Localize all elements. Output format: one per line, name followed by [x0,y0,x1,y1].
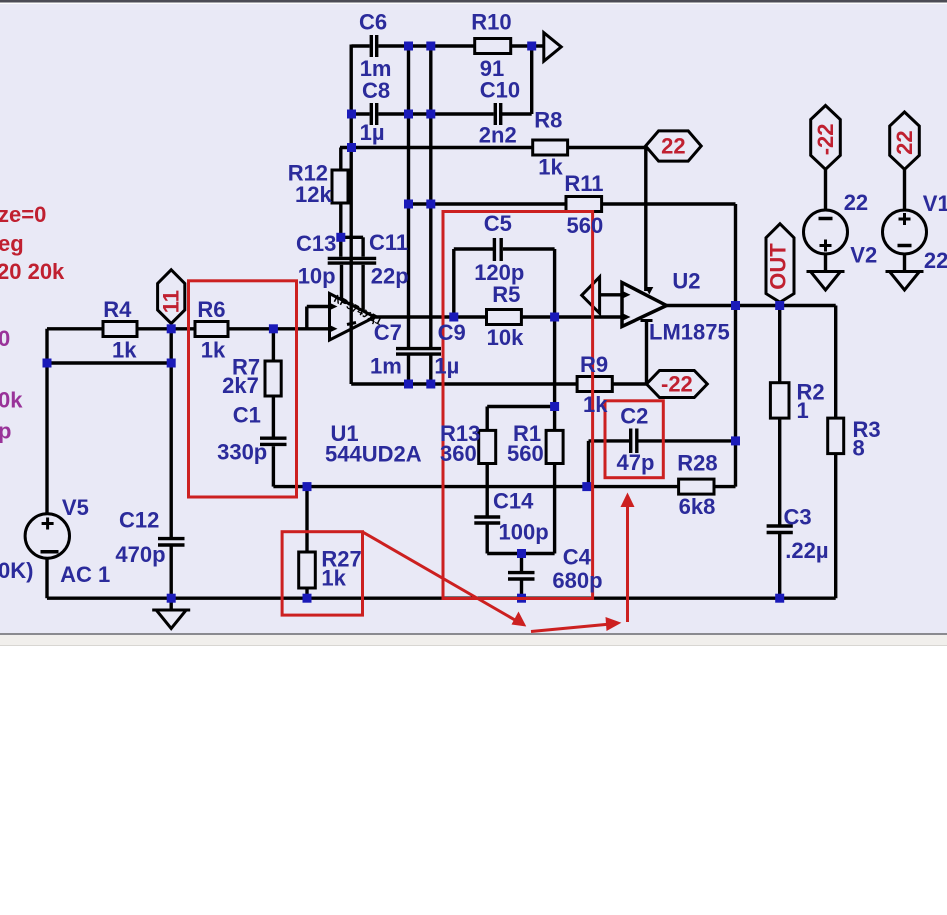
wire c3-bottom-lead [778,534,781,598]
ground V1 [886,272,924,291]
wire r28-right-lead [714,485,736,488]
svg-text:12k: 12k [295,182,332,207]
node J8 [404,200,413,209]
svg-text:C9: C9 [438,320,466,345]
wire left-supply-vert [350,45,353,385]
svg-text:C3: C3 [784,505,812,530]
node J10 [336,233,345,242]
svg-text:100p: 100p [499,520,549,545]
node J17 [167,324,176,333]
resistor R9 [577,377,612,392]
svg-text:R5: R5 [492,282,520,307]
wire v5-top-lead [45,329,48,514]
wire r3-bottom-lead [834,454,837,599]
wire c8-row-b [378,112,493,115]
wire r27-bottom-lead [305,588,308,598]
svg-text:V5: V5 [62,495,89,520]
resistor R13 [479,430,496,463]
cropped left text column [0,202,65,583]
resistor R8 [533,140,568,155]
wire c5-right-lead [503,247,555,250]
wire c14-r1-jog [487,552,554,555]
svg-text:C10: C10 [480,78,520,103]
svg-text:C11: C11 [369,230,408,255]
capacitor C13 [328,258,352,263]
node J7 [347,143,356,152]
node J15 [550,402,559,411]
wire r11-row-right [602,202,736,205]
svg-text:C6: C6 [359,10,387,35]
svg-text:V2: V2 [850,243,877,268]
wire vert-430-lower [429,355,432,384]
wire u2-upper-input [600,293,623,296]
capacitor C4 [508,573,535,579]
wire c5-left-lead [454,247,493,250]
node J12 [550,313,559,322]
svg-text:1k: 1k [112,338,137,363]
red highlight box (C2) [605,401,663,478]
node J24 [775,301,784,310]
wire vert-408-lower [407,355,410,384]
wire top-rail-b [378,44,474,47]
capacitor C12 [158,539,185,545]
wire u1-out-row [375,315,623,318]
svg-text:22p: 22p [371,264,409,289]
node J25 [731,436,740,445]
svg-text:R10: R10 [471,10,511,35]
svg-text:C8: C8 [362,78,390,103]
svg-text:V1: V1 [923,191,947,216]
svg-text:0: 0 [0,326,10,351]
wire r11-feedback-vert [734,204,737,306]
resistor R12 [332,170,348,203]
wire c13-c11-jog [341,236,363,239]
svg-text:AC 1: AC 1 [60,562,110,587]
svg-text:1m: 1m [370,354,402,379]
resistor R27 [299,552,316,588]
node J13 [404,380,413,389]
svg-text:8: 8 [853,435,865,460]
node flag +22 (V1 supply) [890,112,920,169]
node J19 [167,359,176,368]
wire r5-down-vert [553,317,556,407]
capacitor C2 [631,429,637,454]
wire top-rail-a [352,44,370,47]
svg-text:R28: R28 [677,451,717,476]
svg-text:680p: 680p [552,568,602,593]
node J6 [426,110,435,119]
wire v2-flag-stem [824,169,827,211]
svg-text:.22µ: .22µ [785,538,828,563]
wire c12-vert-bottom [169,547,172,599]
wire r7-c1-link [272,396,275,437]
wire c5-left-vert [452,249,455,317]
capacitor C8 [371,103,376,125]
capacitor C3 [767,526,793,533]
svg-text:C12: C12 [119,507,159,532]
wire c13-top-lead [339,237,342,256]
svg-text:C4: C4 [563,545,592,570]
wire r8-row-left [340,146,533,149]
source V2 [804,210,848,254]
wire r3-top-lead [834,306,837,419]
svg-text:47p: 47p [617,450,655,475]
wire v-plus-stem [644,148,647,292]
svg-text:p: p [0,419,11,444]
wire r1-bottom-lead [553,464,556,554]
wire r9-to-flag [612,382,646,385]
svg-text:560: 560 [567,213,604,238]
svg-text:LM1875: LM1875 [649,320,730,345]
wire vert-408-upper [407,46,410,348]
wire u2-out-row [667,304,836,307]
node J20 [303,482,312,491]
svg-text:C2: C2 [620,404,648,429]
svg-text:2k7: 2k7 [222,373,259,398]
node flag +22 (near R8) [646,131,702,161]
op-amp U1 [330,293,384,340]
wire gnd-stem [169,598,172,610]
svg-text:0k: 0k [0,388,23,413]
svg-text:C5: C5 [484,211,512,236]
resistor R11 [566,197,602,212]
capacitor C1 [260,438,287,444]
wire c2-left-down [587,441,590,487]
svg-text:1k: 1k [538,155,563,180]
wire c1-to-node [273,485,307,488]
component value labels [60,10,947,594]
red annotation arrow from R27 box [363,532,527,627]
node J22 [517,549,526,558]
svg-text:C13: C13 [296,231,336,256]
svg-text:R11: R11 [564,171,603,196]
wire r10-right-down [530,45,533,115]
node flag -22 (near U2) [647,371,708,398]
node flag OUT [766,224,795,302]
wire r12-top-lead [339,148,342,171]
wire r1-top-lead [553,407,556,431]
wire u1-input-jog [305,307,308,329]
wire in-row-a [47,327,103,330]
svg-text:2n2: 2n2 [479,123,517,148]
svg-text:1µ: 1µ [434,354,459,379]
resistor R7 [265,361,281,396]
svg-text:OUT: OUT [766,243,791,290]
wire r8-row-right [568,146,646,149]
ground V2 [807,272,845,291]
svg-text:560: 560 [507,441,544,466]
tie marker T1 (right of R10) [544,33,561,62]
svg-text:C7: C7 [374,320,402,345]
wire r7-top-lead [272,329,275,361]
wire c4-bottom-lead [520,581,523,599]
node J26 [167,594,176,603]
svg-text:470p: 470p [115,542,165,567]
wire c4-top-lead [520,554,523,572]
svg-text:10p: 10p [298,264,336,289]
capacitor C10 [495,103,500,125]
red annotation arrow (up, to C2 box) [621,493,635,623]
svg-text:R6: R6 [197,297,225,322]
svg-text:R9: R9 [580,352,608,377]
wire v2-gnd-stem [824,253,827,272]
wire lower-rail [307,485,679,488]
svg-text:360: 360 [440,441,477,466]
red highlight box (R27) [282,532,362,615]
ground main [152,610,190,629]
wire c14-bottom-lead [486,525,489,554]
wire r2-c3-link [778,418,781,524]
wire r11-row-left [409,202,567,205]
wire r12-bottom-lead [339,203,342,237]
svg-text:1: 1 [797,398,809,423]
wire c11-bottom-lead [361,265,364,311]
wire vert-430-upper [429,46,432,348]
wire v-minus-stem [645,321,648,385]
resistor R5 [487,310,522,325]
wire bottom-rail [47,597,836,600]
wire mid-rail-left [351,382,577,385]
node J29 [775,594,784,603]
svg-text:11: 11 [159,290,184,313]
wire c8-row-c [500,112,531,115]
svg-text:R8: R8 [534,108,562,133]
source V1 [883,210,927,254]
svg-text:20 20k: 20 20k [0,259,65,284]
red highlight box (C5 R5 R13 R1 C14 region) [443,212,593,599]
wire c5-right-vert [553,249,556,317]
node J23 [731,301,740,310]
capacitor C14 [474,517,500,523]
svg-text:1µ: 1µ [360,120,385,145]
source V5 [25,514,69,558]
wire c11-top-lead [361,237,364,256]
svg-text:-22: -22 [661,372,693,397]
wire r13-r1-jog [487,405,554,408]
wire v1-flag-stem [903,169,906,211]
svg-text:10k: 10k [487,325,524,350]
capacitor C5 [494,238,501,261]
resistor R4 [103,322,137,337]
svg-text:6k8: 6k8 [679,494,716,519]
svg-text:1k: 1k [583,392,608,417]
svg-text:22: 22 [892,130,917,154]
wire c1-bottom-lead [272,446,275,486]
wire c2-left-lead [589,439,630,442]
wire c2-right-lead [639,439,736,442]
capacitor C9 [419,349,441,355]
wire second-row [47,361,171,364]
wire r13-bottom-lead [486,464,489,516]
node J28 [517,594,526,603]
svg-text:-22: -22 [813,124,838,156]
capacitor C7 [396,349,419,355]
resistor R10 [475,39,511,54]
wire u1-inv-input [307,305,330,308]
wire r27-top-lead [305,487,308,552]
node J3 [527,42,536,51]
red annotation arrow (middle, pointing right) [531,617,621,632]
capacitor C6 [371,35,376,57]
wire c12-vert-top [169,329,172,537]
wire in-row-b [137,327,195,330]
wire r13-top-lead [486,407,489,431]
resistor R6 [195,322,228,337]
wire v5-bottom-lead [45,558,48,598]
node J18 [43,359,52,368]
wire output-feedback-vert [734,306,737,487]
resistor R3 [828,418,844,454]
svg-text:1k: 1k [201,338,226,363]
node J2 [426,42,435,51]
resistor R2 [770,383,789,418]
node J9 [426,200,435,209]
wire v1-gnd-stem [903,253,906,272]
svg-text:330p: 330p [217,440,267,465]
resistor R1 [546,430,563,463]
wire c8-row-a [352,112,370,115]
wire c13-bottom-lead [340,265,343,300]
node J5 [404,110,413,119]
svg-text:C1: C1 [233,403,261,428]
wire in-row-c [228,327,330,330]
wire r2-top-lead [778,306,781,383]
wire top-rail-c [511,44,544,47]
node J11 [449,313,458,322]
node flag 11 (input node) [158,270,185,324]
svg-text:C14: C14 [493,489,534,514]
node J14 [426,380,435,389]
svg-text:0K): 0K) [0,558,33,583]
node J1 [404,42,413,51]
svg-text:544UD2A: 544UD2A [325,442,422,467]
svg-text:22: 22 [844,190,868,215]
node flag -22 (V2 supply) [811,106,841,170]
svg-text:ze=0: ze=0 [0,202,46,227]
tie marker T2 (left of U2) [582,277,600,313]
red highlight box (R6 R7 C1) [189,281,297,497]
node J21 [582,482,591,491]
op-amp U2 [622,283,667,327]
node J4 [347,110,356,119]
svg-text:U2: U2 [672,269,700,294]
resistor R28 [679,479,714,494]
svg-text:22: 22 [661,134,685,159]
capacitor C11 [352,258,376,263]
svg-text:eg: eg [0,231,24,256]
node J16 [269,324,278,333]
svg-text:R4: R4 [103,297,132,322]
svg-text:22: 22 [924,248,947,273]
svg-text:1k: 1k [321,566,346,591]
node J27 [303,594,312,603]
